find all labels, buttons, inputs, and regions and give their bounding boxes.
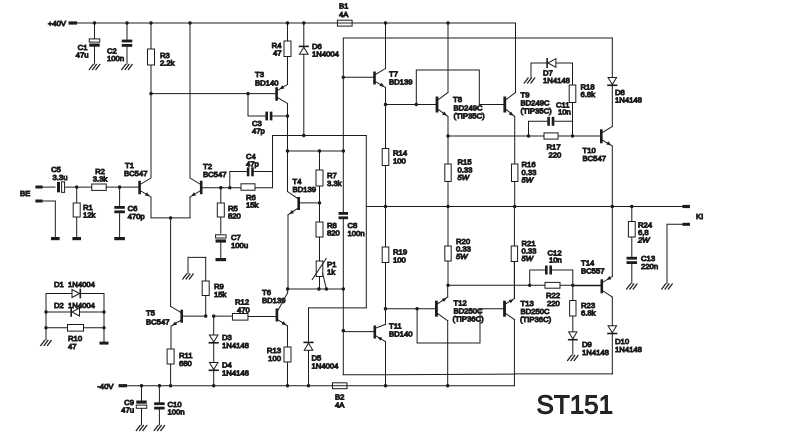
svg-text:ST151: ST151 [537,390,614,420]
svg-text:15k: 15k [214,290,227,299]
svg-text:100n: 100n [168,408,185,417]
svg-text:1N4148: 1N4148 [582,348,609,357]
svg-text:D2: D2 [54,301,64,310]
svg-text:BC547: BC547 [583,154,607,163]
svg-text:470: 470 [237,306,250,315]
svg-text:10n: 10n [549,256,562,265]
svg-text:T5: T5 [146,309,155,318]
svg-text:10n: 10n [558,108,571,117]
svg-text:3.3k: 3.3k [327,179,342,188]
svg-text:820: 820 [228,212,241,221]
svg-text:BD139: BD139 [293,185,317,194]
svg-text:1N4004: 1N4004 [312,362,340,371]
svg-text:1N4148: 1N4148 [615,345,642,354]
svg-text:3.3k: 3.3k [93,175,108,184]
svg-text:BD140: BD140 [255,79,279,88]
svg-text:BC547: BC547 [124,169,148,178]
svg-text:47u: 47u [76,51,89,60]
svg-text:47: 47 [273,49,282,58]
svg-text:2W: 2W [637,236,650,245]
svg-text:15k: 15k [246,201,259,210]
svg-text:470p: 470p [128,212,145,221]
svg-text:D1: D1 [54,280,64,289]
svg-text:47p: 47p [252,127,265,136]
svg-text:820: 820 [327,229,340,238]
svg-text:BC547: BC547 [146,318,170,327]
svg-text:+40V: +40V [48,19,67,28]
svg-text:100n: 100n [348,229,365,238]
svg-text:KI: KI [696,212,703,221]
svg-text:BC557: BC557 [581,267,605,276]
svg-text:5W: 5W [522,254,534,263]
svg-text:2.2k: 2.2k [160,59,175,68]
svg-text:100: 100 [393,157,406,166]
svg-text:1N4004: 1N4004 [312,50,340,59]
svg-text:100u: 100u [231,241,248,250]
svg-text:3.3u: 3.3u [53,173,68,182]
svg-text:6.8k: 6.8k [581,90,596,99]
svg-text:220n: 220n [641,262,658,271]
svg-text:-40V: -40V [97,382,114,391]
svg-text:5W: 5W [522,176,534,185]
svg-text:47u: 47u [121,406,134,415]
svg-text:5W: 5W [456,252,468,261]
svg-text:6.8k: 6.8k [581,309,596,318]
svg-text:220: 220 [549,151,562,160]
svg-text:12k: 12k [83,211,96,220]
svg-text:BE: BE [20,189,30,198]
svg-text:BC547: BC547 [203,170,227,179]
svg-text:1N4148: 1N4148 [543,76,570,85]
svg-text:1N4004: 1N4004 [68,301,96,310]
svg-text:100n: 100n [107,54,124,63]
svg-text:(TIP35C): (TIP35C) [521,107,553,116]
svg-text:1N4148: 1N4148 [222,341,249,350]
svg-text:BD140: BD140 [389,330,413,339]
svg-text:47: 47 [68,342,77,351]
svg-text:4A: 4A [339,10,349,19]
svg-text:100: 100 [268,354,281,363]
svg-text:(TIP36C): (TIP36C) [520,315,552,324]
svg-text:1N4004: 1N4004 [68,280,96,289]
svg-text:1N4148: 1N4148 [615,96,642,105]
svg-text:47p: 47p [246,160,259,169]
svg-text:(TIP36C): (TIP36C) [453,315,485,324]
svg-text:680: 680 [179,359,192,368]
svg-text:1N4148: 1N4148 [222,369,249,378]
svg-text:1k: 1k [327,268,335,277]
svg-text:(TIP35C): (TIP35C) [454,112,486,121]
svg-text:BD139: BD139 [389,78,413,87]
svg-text:5W: 5W [458,173,470,182]
svg-text:4A: 4A [335,401,345,410]
svg-text:100: 100 [393,256,406,265]
